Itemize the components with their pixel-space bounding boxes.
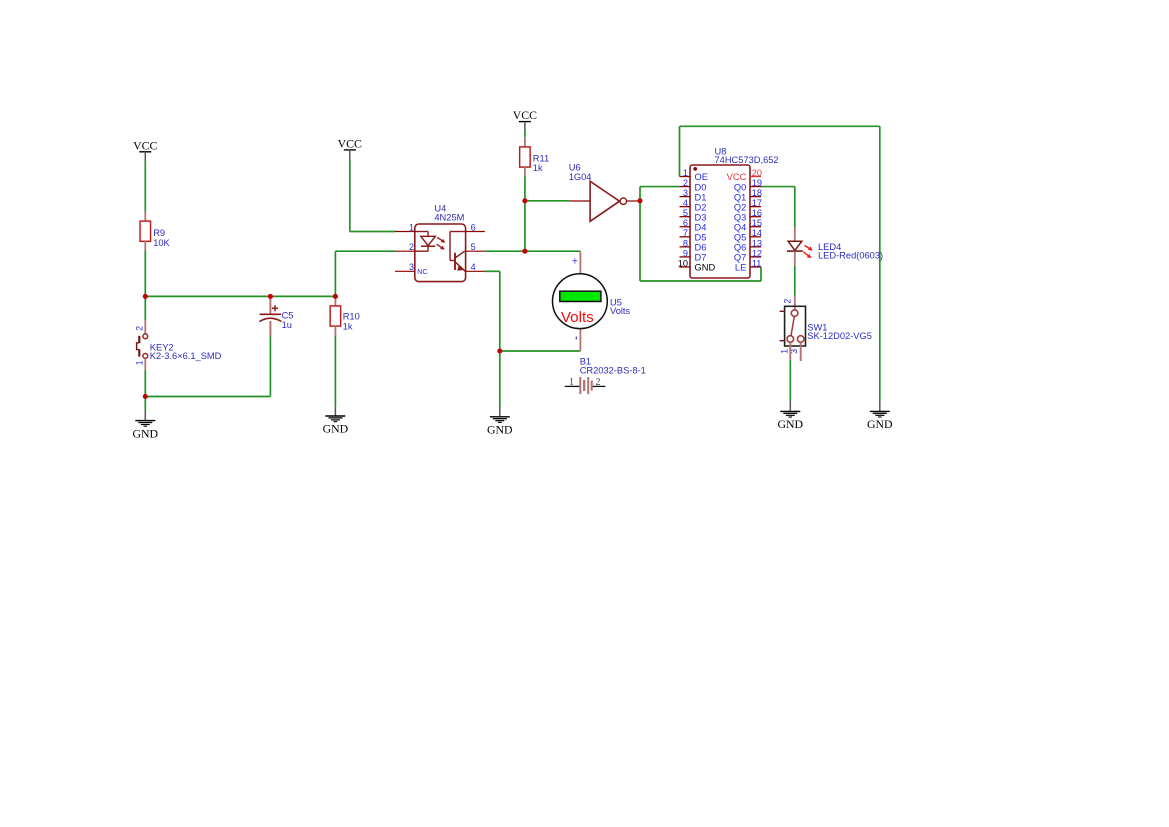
svg-text:7: 7 [683,228,688,238]
svg-text:GND: GND [867,417,893,431]
svg-text:4N25M: 4N25M [434,212,464,222]
svg-text:20: 20 [752,168,762,178]
svg-text:1: 1 [409,222,414,232]
svg-text:VCC: VCC [513,108,537,122]
svg-text:CR2032-BS-8-1: CR2032-BS-8-1 [580,366,646,376]
svg-text:9: 9 [683,248,688,258]
svg-text:2: 2 [683,178,688,188]
svg-text:4: 4 [683,198,688,208]
svg-text:2: 2 [409,242,414,252]
svg-text:2: 2 [783,299,793,304]
svg-text:3: 3 [683,188,688,198]
svg-text:1: 1 [683,168,688,178]
svg-text:2: 2 [596,377,601,388]
svg-text:1u: 1u [282,320,292,330]
svg-text:D3: D3 [695,212,707,222]
svg-text:Q7: Q7 [734,253,746,263]
svg-text:18: 18 [752,188,762,198]
svg-text:10: 10 [678,258,688,268]
svg-text:NC: NC [417,267,427,276]
svg-text:16: 16 [752,208,762,218]
svg-text:11: 11 [752,258,762,268]
svg-text:Q4: Q4 [734,222,746,232]
svg-text:5: 5 [683,208,688,218]
svg-text:15: 15 [752,218,762,228]
svg-text:Q2: Q2 [734,202,746,212]
svg-text:17: 17 [752,198,762,208]
svg-text:D1: D1 [695,192,707,202]
svg-text:D5: D5 [695,233,707,243]
svg-text:K2-3.6×6.1_SMD: K2-3.6×6.1_SMD [150,351,222,361]
svg-text:Volts: Volts [610,306,631,316]
svg-text:1G04: 1G04 [569,172,592,182]
svg-text:LED-Red(0603): LED-Red(0603) [818,251,883,261]
svg-text:GND: GND [133,426,159,440]
svg-text:GND: GND [778,417,804,431]
svg-text:12: 12 [752,248,762,258]
svg-text:19: 19 [752,178,762,188]
svg-text:14: 14 [752,228,762,238]
svg-text:1k: 1k [533,163,543,173]
svg-text:8: 8 [683,238,688,248]
svg-text:VCC: VCC [727,172,747,182]
svg-text:OE: OE [695,172,708,182]
svg-text:GND: GND [323,422,349,436]
svg-text:6: 6 [683,218,688,228]
svg-text:D6: D6 [695,243,707,253]
svg-text:Volts: Volts [561,309,594,326]
svg-text:1: 1 [135,360,145,365]
svg-text:2: 2 [135,326,145,331]
svg-text:GND: GND [487,423,513,437]
svg-text:Q0: Q0 [734,182,746,192]
svg-text:C5: C5 [282,311,294,321]
svg-text:D2: D2 [695,202,707,212]
svg-text:1k: 1k [343,321,353,331]
svg-text:SK-12D02-VG5: SK-12D02-VG5 [807,331,872,341]
svg-text:Q3: Q3 [734,212,746,222]
svg-text:D0: D0 [695,182,707,192]
svg-text:5: 5 [471,242,476,252]
svg-text:1: 1 [569,377,574,388]
svg-text:6: 6 [471,222,476,232]
svg-text:Q5: Q5 [734,233,746,243]
svg-text:13: 13 [752,238,762,248]
svg-text:3: 3 [409,262,414,272]
svg-text:Q1: Q1 [734,192,746,202]
svg-text:4: 4 [471,262,476,272]
svg-text:LE: LE [735,263,746,273]
svg-text:74HC573D,652: 74HC573D,652 [715,155,779,165]
svg-text:VCC: VCC [338,137,362,151]
svg-text:10K: 10K [153,238,170,248]
svg-text:VCC: VCC [133,138,157,152]
svg-text:+: + [572,257,578,268]
svg-text:R10: R10 [343,312,360,322]
svg-text:Q6: Q6 [734,243,746,253]
svg-text:D4: D4 [695,222,707,232]
svg-text:D7: D7 [695,253,707,263]
svg-text:R9: R9 [153,228,165,238]
svg-text:GND: GND [695,263,716,273]
